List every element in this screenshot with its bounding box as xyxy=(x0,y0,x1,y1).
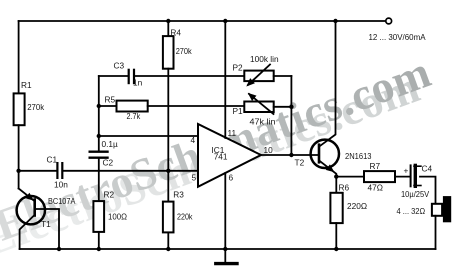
wire R7 to C4 xyxy=(395,176,410,178)
transistor T1 circle xyxy=(17,196,45,224)
transistor T2 emitter wire xyxy=(320,161,337,177)
svg-text:10n: 10n xyxy=(54,180,68,190)
junction top rail R4 xyxy=(166,19,170,23)
wire R3 to rail xyxy=(167,232,169,249)
svg-text:4 ... 32Ω: 4 ... 32Ω xyxy=(397,206,426,216)
wire R5 row right to P1 xyxy=(148,105,245,107)
svg-text:R1: R1 xyxy=(21,80,32,90)
junction rail ground xyxy=(223,247,227,251)
potentiometer P1 xyxy=(244,102,273,113)
resistor R6 stub xyxy=(335,177,337,193)
junction rail R6 xyxy=(334,247,338,251)
svg-text:220k: 220k xyxy=(177,212,193,222)
junction left rail C1 xyxy=(16,169,20,173)
wire P2 right xyxy=(274,75,292,77)
wire C2 to row xyxy=(98,159,100,171)
transistor T2 collector wire xyxy=(320,21,336,146)
svg-text:2.7k: 2.7k xyxy=(127,111,141,121)
svg-text:0.1µ: 0.1µ xyxy=(102,139,119,149)
svg-text:C2: C2 xyxy=(103,158,114,168)
transistor T1 emitter arrow xyxy=(25,193,34,201)
transistor T2 circle xyxy=(311,140,339,168)
wire pin6 ground xyxy=(224,173,226,249)
transistor T2 emitter arrow xyxy=(326,164,335,172)
potentiometer P2 wiper xyxy=(248,65,270,85)
wire pin4 row xyxy=(99,135,198,137)
wire pin11 supply xyxy=(224,21,226,138)
svg-text:R4: R4 xyxy=(170,28,181,38)
svg-text:BC107A: BC107A xyxy=(48,196,76,206)
potentiometer P1 wiper xyxy=(249,94,274,114)
speaker LS1 box xyxy=(432,204,442,216)
svg-text:100Ω: 100Ω xyxy=(108,212,127,222)
svg-text:C1: C1 xyxy=(47,155,58,165)
resistor R3 xyxy=(163,202,174,233)
svg-text:T2: T2 xyxy=(295,158,305,168)
potentiometer P2 wiper arrow xyxy=(246,78,255,86)
capacitor C2 plates xyxy=(90,150,108,152)
capacitor C1 xyxy=(56,163,58,178)
transistor T1 emitter wire xyxy=(19,189,34,201)
svg-text:P1: P1 xyxy=(233,106,244,116)
ground symbol xyxy=(224,249,226,263)
wire left rail top xyxy=(18,21,20,93)
svg-text:10µ/25V: 10µ/25V xyxy=(401,189,430,199)
wire R4 top stub xyxy=(167,21,169,36)
junction C2 top pin4 xyxy=(97,134,101,138)
junction output node xyxy=(289,153,293,157)
wire C4 to speaker xyxy=(420,177,436,204)
svg-text:270k: 270k xyxy=(27,102,45,112)
resistor R1 xyxy=(14,93,25,125)
svg-text:2N1613: 2N1613 xyxy=(345,151,372,161)
wire R5 row left xyxy=(99,105,117,107)
wire bottom ground rail xyxy=(20,248,436,250)
wire C3 row left xyxy=(99,75,128,77)
wire R6 to rail xyxy=(335,223,337,249)
potentiometer P1 wiper arrow xyxy=(248,93,257,101)
wire left rail middle xyxy=(18,125,20,188)
wire row C1 / pin5 xyxy=(19,170,57,172)
transistor T1 base wire xyxy=(36,209,59,249)
junction rail R3 xyxy=(166,247,170,251)
wire pin10 output xyxy=(261,154,318,156)
junction top rail pin11 xyxy=(223,19,227,23)
svg-text:R3: R3 xyxy=(173,190,184,200)
op-amp IC1 triangle xyxy=(198,124,261,187)
junction top rail T2 collector xyxy=(333,19,337,23)
svg-text:+: + xyxy=(404,166,409,176)
junction R3 node pin5 xyxy=(166,169,170,173)
junction rail T1 base xyxy=(57,247,61,251)
wire pot right column xyxy=(290,76,292,155)
capacitor C3 plates xyxy=(128,70,130,83)
svg-text:47Ω: 47Ω xyxy=(368,183,383,193)
potentiometer P2 xyxy=(244,71,273,82)
resistor R6 xyxy=(330,193,342,223)
junction P1 right xyxy=(289,105,293,109)
junction rail R2 xyxy=(97,247,101,251)
svg-text:12 ... 30V/60mA: 12 ... 30V/60mA xyxy=(369,32,426,42)
wire C1 to pin5 xyxy=(63,170,198,172)
resistor R5 xyxy=(117,101,148,112)
svg-text:1n: 1n xyxy=(133,78,143,88)
svg-text:220Ω: 220Ω xyxy=(347,201,367,211)
resistor R2 xyxy=(93,201,104,232)
wire P1 right xyxy=(274,106,292,108)
transistor T1 base bar xyxy=(33,200,36,216)
capacitor C2 column xyxy=(98,76,100,151)
svg-text:5: 5 xyxy=(192,172,197,182)
svg-text:6: 6 xyxy=(229,172,234,182)
resistor R7 xyxy=(364,171,395,182)
speaker LS1 magnet xyxy=(443,196,451,222)
resistor R4 xyxy=(163,36,174,69)
transistor T2 base bar xyxy=(318,145,321,163)
svg-text:4: 4 xyxy=(191,135,196,145)
svg-text:T1: T1 xyxy=(41,219,51,229)
svg-text:R5: R5 xyxy=(105,94,116,104)
svg-text:C4: C4 xyxy=(422,163,433,173)
wire R2 to rail xyxy=(98,232,100,249)
capacitor C4 right plate xyxy=(414,165,417,186)
transistor T1 collector wire xyxy=(20,216,34,250)
svg-text:R6: R6 xyxy=(339,182,350,192)
svg-text:47k lin: 47k lin xyxy=(250,117,276,127)
wire R4 to R3 column xyxy=(167,69,169,202)
wire emitter node to R7 xyxy=(336,176,364,178)
junction R5 left xyxy=(97,104,101,108)
svg-text:100k lin: 100k lin xyxy=(250,54,279,64)
wire top supply rail xyxy=(19,20,386,22)
wire C3 row right to P2 xyxy=(135,75,244,77)
junction T2 emitter node xyxy=(334,174,338,178)
terminal supply xyxy=(386,18,392,24)
resistor R2 stub xyxy=(98,171,100,201)
svg-text:P2: P2 xyxy=(233,62,244,72)
svg-text:C3: C3 xyxy=(114,61,125,71)
capacitor C4 left plate xyxy=(410,165,412,186)
svg-text:R7: R7 xyxy=(370,161,381,171)
svg-text:11: 11 xyxy=(228,128,237,138)
wire speaker to rail xyxy=(435,216,437,249)
svg-text:R2: R2 xyxy=(104,190,115,200)
svg-text:741: 741 xyxy=(214,151,228,161)
svg-text:10: 10 xyxy=(264,145,274,155)
svg-text:270k: 270k xyxy=(176,46,193,56)
